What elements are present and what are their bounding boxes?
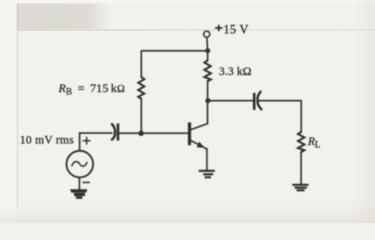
supply terminal +15V <box>204 31 210 48</box>
resistor RB <box>138 77 144 99</box>
transistor Q1 base bar <box>188 122 191 145</box>
wire collector to C2 <box>210 100 253 102</box>
wire collector diagonal <box>191 124 208 130</box>
edge shading <box>0 203 375 223</box>
plus sign <box>83 137 90 144</box>
label +15 V plus sign <box>215 25 223 32</box>
node J2 base <box>138 131 143 136</box>
resistor 3.3k <box>204 60 210 81</box>
wire emitter vertical <box>206 149 208 170</box>
ground source <box>70 189 88 199</box>
wire top rail <box>141 50 207 52</box>
resistor RL <box>298 132 304 152</box>
svg-text:3.3 kΩ: 3.3 kΩ <box>219 65 252 78</box>
capacitor C2 <box>253 92 262 110</box>
wire 3.3k top <box>207 51 209 61</box>
source VS <box>67 151 94 178</box>
wire collector vertical <box>207 101 209 124</box>
wire RB bottom <box>140 99 142 133</box>
ground emitter <box>199 170 215 179</box>
svg-text:15 V: 15 V <box>223 23 248 37</box>
minus sign <box>83 182 90 184</box>
wire C2 to RL corner <box>259 101 301 132</box>
node J3 collector <box>205 98 210 103</box>
svg-text:10 mV rms: 10 mV rms <box>20 135 74 147</box>
wire source top <box>79 133 81 151</box>
wire source ground stem <box>78 177 80 189</box>
wire RB top <box>140 51 142 77</box>
node J1 <box>205 48 210 53</box>
wire 3.3k bottom <box>207 81 209 100</box>
ground RL <box>292 184 308 192</box>
capacitor C1 <box>112 123 119 140</box>
wire base <box>80 132 112 134</box>
wire RL bottom <box>300 152 302 184</box>
transistor Q1 emitter <box>191 141 207 149</box>
